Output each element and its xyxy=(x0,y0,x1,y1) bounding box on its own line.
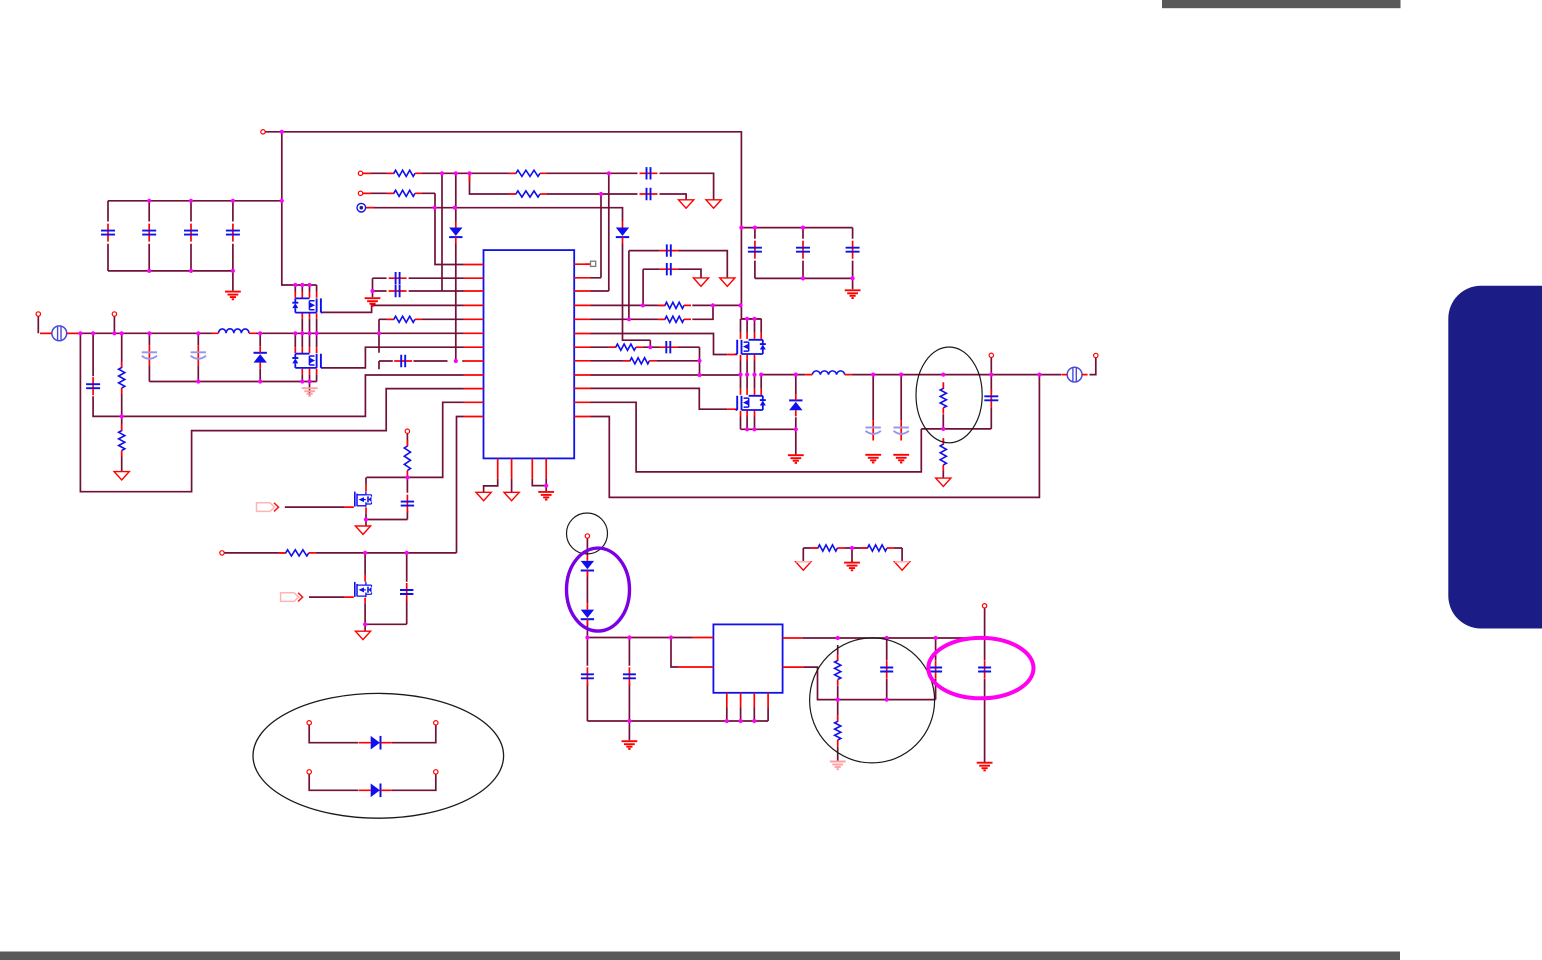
ground GND6 xyxy=(622,741,638,749)
wire row402 long net xyxy=(591,402,922,472)
junction xyxy=(363,551,367,555)
wire C5 leads xyxy=(148,333,150,381)
ground GND3 xyxy=(365,298,381,306)
terminal P13 xyxy=(434,721,438,725)
wire R12 lead xyxy=(942,414,944,429)
wire C8-C9 gnd stem xyxy=(372,278,374,297)
highlight ellipse magenta xyxy=(928,638,1033,698)
terminal P9 xyxy=(989,353,993,357)
junction xyxy=(753,226,757,230)
wire Q6 drain stub xyxy=(364,553,366,575)
junction xyxy=(745,317,749,321)
ground chassis T7 xyxy=(355,631,370,639)
resistor R14 xyxy=(835,654,841,685)
ground GND1 xyxy=(225,292,241,300)
ground chassis T1 xyxy=(114,472,129,480)
wire D2 leads xyxy=(259,333,261,381)
junction xyxy=(850,546,854,550)
wire Q4 source stubs xyxy=(741,417,755,430)
inductor L2 xyxy=(805,371,851,375)
terminal P14 xyxy=(307,770,311,774)
ground chassis T2 xyxy=(679,200,694,208)
capacitor C14 xyxy=(401,495,414,513)
junction xyxy=(697,373,701,377)
wire row305 net xyxy=(591,304,741,306)
junction xyxy=(370,289,374,293)
terminal P4 xyxy=(36,312,40,316)
junction xyxy=(752,427,756,431)
capacitor C7 xyxy=(394,355,412,367)
wire Q5 gate xyxy=(285,506,345,508)
terminal P2 xyxy=(358,171,362,175)
wire to Q1 drain rail xyxy=(282,132,317,285)
ground chassis T9 xyxy=(504,492,519,500)
wire left cap bank top rail xyxy=(108,200,282,202)
wire C13 row xyxy=(643,269,701,278)
junction xyxy=(899,373,903,377)
capacitor C8 xyxy=(389,272,407,284)
wire C20 leads xyxy=(984,608,986,762)
wire main +V rail xyxy=(40,332,464,334)
wire row194 branch xyxy=(470,173,687,200)
wire input terminal stubs xyxy=(38,316,114,333)
terminal P6 xyxy=(405,429,409,433)
terminal P3 xyxy=(358,191,362,195)
Q3 bottom leads xyxy=(741,355,755,361)
junction xyxy=(453,206,457,210)
ground GND10 xyxy=(977,763,993,771)
wire R5 row xyxy=(379,318,464,320)
resistor R3 xyxy=(509,170,547,176)
row terminal leads xyxy=(363,173,374,207)
wire Q2 gate net xyxy=(323,347,464,368)
junction xyxy=(189,199,193,203)
diode D6 xyxy=(581,554,594,577)
junction xyxy=(627,635,631,639)
wire row264 net xyxy=(435,193,464,264)
junction xyxy=(989,373,993,377)
wire R8 top lead xyxy=(406,433,408,440)
wire C16 leads xyxy=(586,638,588,722)
wire C14 leads xyxy=(406,477,408,519)
Q2 bottom leads xyxy=(302,369,316,375)
ground chassis T11 xyxy=(796,562,811,570)
Q1 top leads xyxy=(295,292,316,298)
wire C17 leads xyxy=(628,638,630,722)
diode D1 xyxy=(449,221,462,244)
capacitor C22 polarized xyxy=(866,421,881,441)
highlight ellipse violet xyxy=(567,548,630,631)
wire Q6 source node xyxy=(365,603,407,631)
junction xyxy=(941,427,945,431)
highlight circle bottom xyxy=(810,638,935,763)
fuse leads xyxy=(40,332,80,334)
ground GND7 xyxy=(788,455,804,463)
junction xyxy=(440,171,444,175)
row194 stub xyxy=(469,175,471,182)
inductor L1 xyxy=(212,329,257,333)
wire R5-C7 link xyxy=(379,319,464,369)
wire R15 gnd lead xyxy=(837,746,839,761)
junction xyxy=(738,373,742,377)
junction xyxy=(363,622,367,626)
wire C9 row xyxy=(373,290,464,292)
wire Q3 drain rail xyxy=(741,318,762,320)
wire Q3 source stubs xyxy=(741,361,755,375)
terminal P11 xyxy=(982,604,986,608)
resistor R5 xyxy=(387,316,422,322)
fuse F2 xyxy=(1062,367,1088,382)
wire D9 branch xyxy=(309,774,436,790)
junction xyxy=(544,484,548,488)
junction xyxy=(641,303,645,307)
wire row173 branches xyxy=(442,173,456,361)
net flag gate B xyxy=(281,593,303,602)
transistor Q2 xyxy=(292,354,322,368)
resistor R6 xyxy=(658,302,691,308)
junction xyxy=(711,303,715,307)
junction xyxy=(120,331,124,335)
resistor R18 xyxy=(119,362,125,395)
Q6 leads xyxy=(364,575,366,604)
junction xyxy=(885,698,889,702)
junction xyxy=(627,719,631,723)
capacitor C19 xyxy=(929,661,942,679)
wire U1 gnd pin4 xyxy=(545,479,547,492)
navy side tab xyxy=(1448,286,1542,629)
junction xyxy=(669,635,673,639)
resistor R7 xyxy=(658,316,691,322)
capacitor C bank2 xyxy=(846,241,860,259)
wire Q6 drain rail xyxy=(224,417,463,553)
junction xyxy=(738,303,742,307)
ground chassis T8 xyxy=(476,492,491,500)
terminal P7 xyxy=(220,551,224,555)
IC U2 regulator xyxy=(713,624,782,692)
terminal P8 xyxy=(585,534,589,538)
ground GND12 pale xyxy=(830,762,846,770)
wire row319 net xyxy=(591,305,714,319)
junction xyxy=(983,636,987,640)
junction xyxy=(78,331,82,335)
capacitor C4 xyxy=(86,377,100,395)
ground GND9 xyxy=(893,455,909,463)
capacitor C2 xyxy=(640,188,658,200)
transistor Q5 xyxy=(355,491,372,506)
wire output cap leads xyxy=(873,375,901,421)
junction xyxy=(196,331,200,335)
U1 bottom pins xyxy=(498,458,547,478)
ground chassis T10 xyxy=(936,478,951,486)
junction xyxy=(112,331,116,335)
wire U2 en jog xyxy=(671,638,678,668)
Q5 Q6 gate leads xyxy=(344,507,353,597)
ground GND4 xyxy=(538,492,554,500)
junction xyxy=(231,269,235,273)
Q1 bottom leads xyxy=(302,313,316,318)
ground GND2 xyxy=(845,290,861,298)
terminal P10 xyxy=(1094,353,1098,357)
junction xyxy=(147,269,151,273)
capacitor C bank x232 xyxy=(226,224,240,242)
no-connect square xyxy=(585,261,596,266)
wire net to U1 pin xyxy=(80,333,463,491)
diode D2 xyxy=(254,346,267,369)
resistor R4 xyxy=(509,191,547,197)
capacitor C12 xyxy=(660,244,678,256)
junction xyxy=(607,171,611,175)
wire row388 to Q4 gate xyxy=(591,388,728,409)
wire row278 jog xyxy=(591,194,602,278)
junction xyxy=(759,373,763,377)
junction xyxy=(196,379,200,383)
junction xyxy=(794,373,798,377)
wire R13 gnd lead xyxy=(942,471,944,479)
junction xyxy=(258,331,262,335)
transistor Q4 xyxy=(736,396,766,410)
wire U1 gnd pin2 xyxy=(511,479,513,493)
ground GND5 xyxy=(844,563,860,571)
junction xyxy=(752,317,756,321)
U1 left pins xyxy=(464,265,484,417)
junction xyxy=(258,379,262,383)
wire row193 xyxy=(363,192,435,194)
junction xyxy=(300,283,304,287)
wire left cap bank bottom rail xyxy=(108,271,233,291)
wire row375 phase xyxy=(591,374,741,376)
resistor R2 xyxy=(387,190,422,196)
wire row207 to D3 xyxy=(366,208,650,341)
capacitor C11 xyxy=(659,341,677,353)
junction xyxy=(433,206,437,210)
junction xyxy=(648,345,652,349)
junction xyxy=(405,475,409,479)
wire gnd stem xyxy=(628,721,630,740)
resistor R11 xyxy=(623,358,656,364)
ground chassis T5 xyxy=(720,278,735,286)
junction xyxy=(697,359,701,363)
junction xyxy=(941,373,945,377)
capacitor C23 polarized xyxy=(894,421,909,441)
highlight circle small xyxy=(567,513,608,554)
junction xyxy=(293,331,297,335)
Q4 bottom leads xyxy=(741,411,755,417)
wire fb node xyxy=(921,407,991,429)
Q3 Q4 gate leads xyxy=(727,355,737,410)
capacitor C bank x191 xyxy=(184,224,198,242)
highlight ellipse large xyxy=(253,693,504,818)
junction xyxy=(725,719,729,723)
wire U2 fb rail xyxy=(803,667,935,700)
junction xyxy=(300,331,304,335)
wire cap bank top rail xyxy=(741,227,852,229)
resistor R16 xyxy=(811,545,845,551)
highlight ellipse output xyxy=(916,347,982,443)
terminal P15 xyxy=(434,770,438,774)
fuse F1 xyxy=(46,326,72,341)
capacitor C5 polarized xyxy=(142,345,157,365)
wire input filter bottom rail xyxy=(149,381,316,383)
capacitor C20 xyxy=(978,661,991,679)
junction xyxy=(91,331,95,335)
wire C19 leads xyxy=(935,638,937,700)
junction xyxy=(147,331,151,335)
Q4 top leads xyxy=(741,389,762,395)
wire C18 leads xyxy=(886,638,888,700)
terminal P5 xyxy=(112,312,116,316)
junction xyxy=(627,317,631,321)
capacitor C16 xyxy=(581,667,594,685)
wire C6 leads xyxy=(197,333,199,381)
wire cap bank bottom rail xyxy=(755,278,853,289)
junction xyxy=(801,226,805,230)
resistor R8 xyxy=(404,440,410,477)
wire U2 vout rail xyxy=(802,637,984,639)
junction xyxy=(120,414,124,418)
wire C12 row xyxy=(629,251,727,278)
capacitor C bank x149 xyxy=(142,224,156,242)
top gray header bar xyxy=(1162,0,1401,8)
resistor R13 xyxy=(940,438,946,471)
transistor Q1 xyxy=(292,298,322,312)
junction xyxy=(405,551,409,555)
terminal P12 xyxy=(307,721,311,725)
junction xyxy=(454,359,458,363)
wire Q4 source rail xyxy=(741,428,796,430)
resistor R19 xyxy=(119,425,125,457)
resistor R12 xyxy=(940,382,946,413)
capacitor C bank x108 xyxy=(101,224,115,242)
junction xyxy=(307,379,311,383)
wire row347 net xyxy=(591,346,700,348)
Q5 leads xyxy=(365,485,367,514)
junction xyxy=(739,719,743,723)
wire D5 leads xyxy=(795,375,797,430)
junction xyxy=(836,636,840,640)
wire row361 net xyxy=(591,360,700,362)
ground GND11 pale xyxy=(302,388,318,396)
junction xyxy=(745,427,749,431)
wire R14 R15 leads xyxy=(837,645,839,715)
wire C13 drop xyxy=(642,269,644,305)
capacitor C9 xyxy=(389,285,407,297)
wire row416 long bus xyxy=(591,375,1040,498)
bottom gray footer bar xyxy=(0,952,1400,960)
resistor R10 xyxy=(609,344,643,350)
wire row291 jog xyxy=(591,173,609,291)
resistor R17 xyxy=(861,545,895,551)
wire Q1-Q2 links xyxy=(295,319,316,347)
junction xyxy=(739,226,743,230)
wire to out terminal xyxy=(1090,358,1096,375)
junction xyxy=(300,379,304,383)
resistor R1 xyxy=(387,170,422,176)
junction xyxy=(752,719,756,723)
wire U1 gnd pin1 xyxy=(484,479,498,493)
wire D6 D7 chain xyxy=(586,538,588,637)
bullseye terminal xyxy=(357,203,366,212)
junction xyxy=(801,276,805,280)
wire cap sense net xyxy=(93,333,463,416)
ground chassis T6 xyxy=(355,526,370,534)
wire Q2 source stubs xyxy=(302,374,316,395)
wire C12 drop xyxy=(628,251,630,320)
junction xyxy=(307,283,311,287)
junction xyxy=(147,199,151,203)
junction xyxy=(293,283,297,287)
capacitor C21 xyxy=(984,389,998,407)
junction xyxy=(745,373,749,377)
junction xyxy=(836,698,840,702)
junction xyxy=(851,276,855,280)
wire cap leads xyxy=(108,201,233,271)
junction xyxy=(280,130,284,134)
junction xyxy=(231,199,235,203)
capacitor C1 xyxy=(640,167,658,179)
Q2 top leads xyxy=(295,347,316,353)
junction xyxy=(307,331,311,335)
junction xyxy=(1037,373,1041,377)
wire cap leads xyxy=(755,228,853,279)
wire gate node vert xyxy=(699,347,701,375)
wire RD rail xyxy=(803,547,902,549)
junction xyxy=(794,427,798,431)
junction xyxy=(599,192,603,196)
wire D8 branch xyxy=(309,725,436,743)
wire Q4 drain stubs xyxy=(741,375,762,389)
wire U2 vin rail xyxy=(587,637,692,639)
capacitor C13 xyxy=(660,263,678,275)
resistor R15 xyxy=(835,715,841,746)
resistor R9 xyxy=(279,550,316,556)
net flag gate A xyxy=(257,503,279,512)
wire U1 gnd pin3 xyxy=(532,479,546,486)
wire Q1 gate net xyxy=(323,305,464,312)
terminal P1 xyxy=(261,130,265,134)
junction xyxy=(315,331,319,335)
junction xyxy=(885,636,889,640)
capacitor C17 xyxy=(623,667,636,685)
junction xyxy=(377,331,381,335)
junction xyxy=(364,517,368,521)
wire Q1 drain stubs xyxy=(295,285,316,292)
ground chassis T3 xyxy=(706,200,721,208)
transistor Q6 xyxy=(355,582,372,597)
wire Q5 drain stub xyxy=(365,477,367,484)
junction xyxy=(934,636,938,640)
capacitor C bank2 xyxy=(748,241,762,259)
capacitor C bank2 xyxy=(796,241,810,259)
wire Q6 gate xyxy=(309,596,344,598)
wire U2 bottom rail xyxy=(587,720,768,722)
junction xyxy=(752,373,756,377)
diode D9 xyxy=(359,784,392,798)
junction xyxy=(454,171,458,175)
junction xyxy=(585,635,589,639)
wire resistor divider xyxy=(121,333,123,471)
junction xyxy=(189,269,193,273)
wire RD stems xyxy=(803,548,902,562)
diode D7 xyxy=(581,603,594,626)
wire D5 gnd stem xyxy=(795,429,797,454)
transistor Q3 xyxy=(736,340,766,354)
wire C8 row xyxy=(373,277,464,279)
IC U1 main controller xyxy=(484,250,575,458)
junction xyxy=(280,199,284,203)
wire out terminal stub xyxy=(990,358,992,393)
diode D8 xyxy=(359,736,392,750)
diode D3 xyxy=(616,221,629,244)
